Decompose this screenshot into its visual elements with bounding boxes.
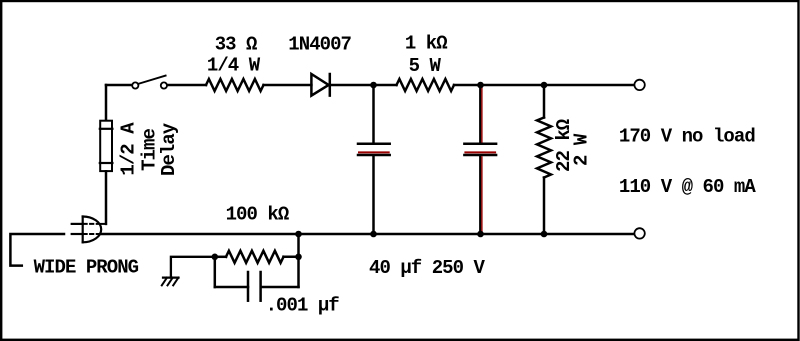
- svg-text:170 V no load: 170 V no load: [619, 125, 755, 147]
- svg-text:2 W: 2 W: [571, 133, 593, 166]
- svg-text:110 V @ 60 mA: 110 V @ 60 mA: [619, 176, 756, 198]
- svg-text:WIDE PRONG: WIDE PRONG: [34, 257, 139, 279]
- svg-text:1/4 W: 1/4 W: [207, 55, 261, 77]
- svg-text:1 kΩ: 1 kΩ: [405, 33, 447, 55]
- svg-text:40 μf 250 V: 40 μf 250 V: [369, 257, 486, 279]
- svg-text:.001 μf: .001 μf: [266, 294, 340, 316]
- svg-text:1N4007: 1N4007: [288, 33, 351, 55]
- svg-text:33 Ω: 33 Ω: [215, 33, 257, 55]
- svg-text:1/2 A: 1/2 A: [118, 122, 140, 176]
- svg-text:100 kΩ: 100 kΩ: [226, 203, 289, 225]
- svg-text:Delay: Delay: [158, 122, 180, 176]
- svg-text:5 W: 5 W: [409, 55, 442, 77]
